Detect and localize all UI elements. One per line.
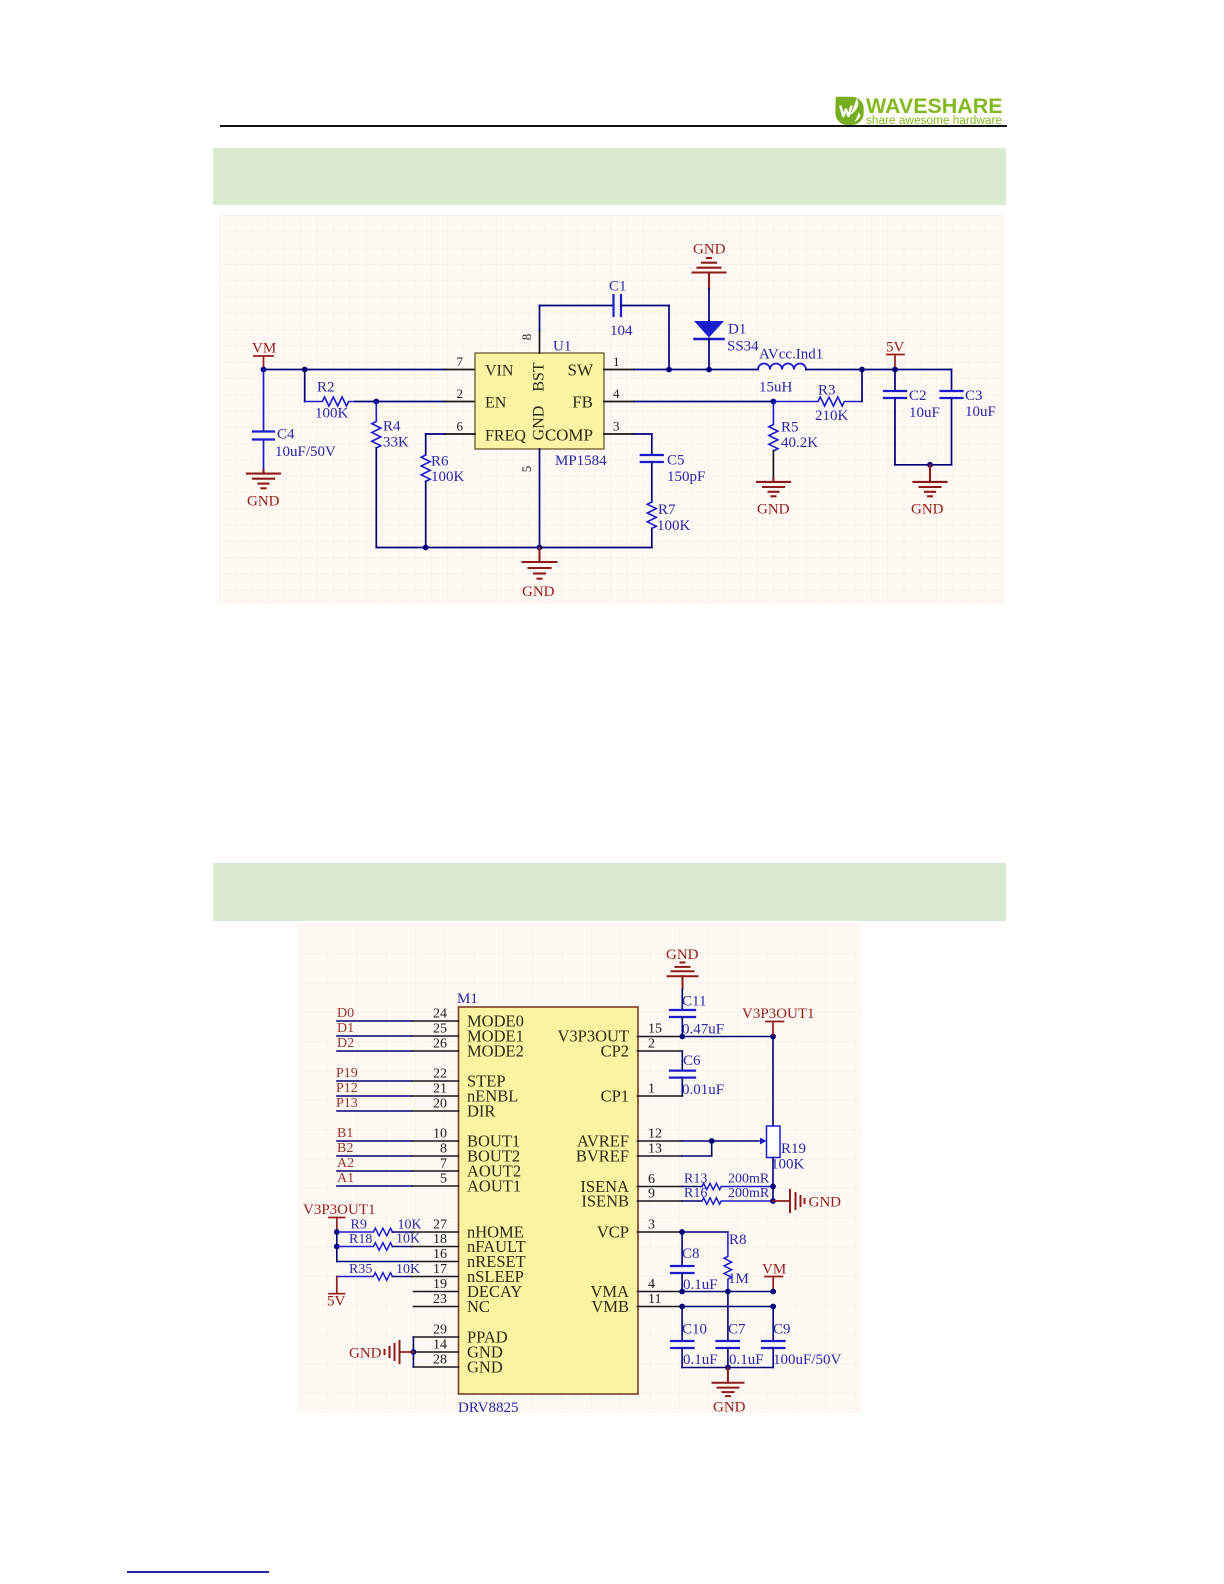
svg-text:D0: D0 xyxy=(337,1006,354,1021)
wire P19 to STEP xyxy=(337,1080,459,1082)
wire R2 to EN junction xyxy=(355,401,376,403)
svg-text:100K: 100K xyxy=(315,406,349,422)
wire ground bus (PPAD/14/28) xyxy=(412,1337,414,1367)
svg-text:17: 17 xyxy=(433,1262,447,1277)
top rule xyxy=(220,125,1007,127)
node R3 riser junction xyxy=(859,367,865,373)
wire FB (pin 4) xyxy=(604,401,773,403)
node ISENA junction xyxy=(770,1184,776,1190)
svg-text:R35: R35 xyxy=(349,1262,372,1277)
svg-text:SS34: SS34 xyxy=(727,339,759,355)
svg-text:0.1uF: 0.1uF xyxy=(729,1352,764,1368)
power port V3P3OUT1 (right) xyxy=(766,1022,784,1037)
svg-text:24: 24 xyxy=(433,1007,447,1022)
node R2 branch junction xyxy=(302,367,308,373)
capacitor C7 xyxy=(717,1292,740,1368)
wire C2/C3 bottom rail xyxy=(895,464,952,466)
svg-text:200mR: 200mR xyxy=(728,1172,770,1187)
svg-text:GND: GND xyxy=(809,1195,842,1211)
ground symbol (R5) xyxy=(757,479,790,497)
svg-text:10uF/50V: 10uF/50V xyxy=(275,444,336,460)
svg-text:VCP: VCP xyxy=(597,1223,629,1242)
svg-text:C4: C4 xyxy=(277,427,295,443)
svg-text:C1: C1 xyxy=(609,279,627,295)
wire DECAY stub xyxy=(413,1291,458,1293)
svg-text:0.1uF: 0.1uF xyxy=(683,1277,718,1293)
svg-text:GND: GND xyxy=(713,1400,746,1416)
wire V3P3OUT1 bus down to nRESET xyxy=(336,1232,338,1262)
svg-text:GND: GND xyxy=(757,502,790,518)
svg-text:100K: 100K xyxy=(657,518,691,534)
node C1/SW junction xyxy=(666,367,672,373)
capacitor C4 xyxy=(253,370,274,471)
ground symbol (C11, inverted) xyxy=(668,963,698,990)
wire R5 to ground xyxy=(772,451,774,479)
svg-text:5V: 5V xyxy=(886,340,905,356)
svg-text:33K: 33K xyxy=(383,435,409,451)
svg-text:P19: P19 xyxy=(336,1066,358,1081)
svg-text:VM: VM xyxy=(762,1262,786,1278)
capacitor C6 xyxy=(670,1071,695,1078)
node VMB/C9 junction xyxy=(770,1304,776,1310)
svg-text:EN: EN xyxy=(485,395,507,412)
wire D0 to MODE0 xyxy=(337,1020,459,1022)
svg-text:2: 2 xyxy=(457,386,464,401)
svg-text:100uF/50V: 100uF/50V xyxy=(773,1352,842,1368)
node C2C3 ground junction xyxy=(927,462,933,468)
wire GND to C11 xyxy=(681,989,683,1010)
svg-text:C11: C11 xyxy=(682,994,706,1010)
svg-text:B2: B2 xyxy=(337,1141,353,1156)
svg-text:R13: R13 xyxy=(684,1172,707,1187)
wire BVREF (pin 13) xyxy=(638,1141,712,1156)
svg-text:100K: 100K xyxy=(771,1157,805,1173)
wire 5V rail to C3 xyxy=(951,370,953,391)
resistor R16 xyxy=(702,1198,773,1204)
svg-text:6: 6 xyxy=(457,419,464,434)
wire ISENB (pin 9) xyxy=(638,1200,703,1202)
svg-text:200mR: 200mR xyxy=(728,1186,770,1201)
green banner 2 xyxy=(213,863,1006,921)
svg-text:D1: D1 xyxy=(728,322,746,338)
svg-text:R7: R7 xyxy=(658,502,676,518)
capacitor C9 xyxy=(762,1307,785,1368)
IC M1 body xyxy=(459,1007,639,1394)
svg-text:100K: 100K xyxy=(431,469,465,485)
node VM junction xyxy=(261,367,267,373)
resistor R9 xyxy=(337,1228,393,1236)
capacitor C10 xyxy=(671,1307,694,1368)
svg-text:15uH: 15uH xyxy=(759,380,793,396)
svg-text:C8: C8 xyxy=(682,1246,700,1262)
svg-text:C6: C6 xyxy=(683,1053,701,1069)
svg-text:3: 3 xyxy=(613,419,620,434)
node R8/VMA junction xyxy=(725,1289,731,1295)
ground symbol (U1) xyxy=(523,548,557,579)
svg-text:DIR: DIR xyxy=(467,1102,495,1121)
svg-text:MODE2: MODE2 xyxy=(467,1042,524,1061)
node AVREF/BVREF junction xyxy=(709,1138,715,1144)
svg-text:20: 20 xyxy=(433,1097,447,1112)
svg-text:5V: 5V xyxy=(327,1294,346,1310)
resistor R18 xyxy=(337,1243,393,1251)
wire D2 to MODE2 xyxy=(337,1050,459,1052)
wire nRESET xyxy=(337,1261,459,1263)
svg-text:26: 26 xyxy=(433,1037,447,1052)
node R18 junction xyxy=(334,1244,340,1250)
wire caps bottom rail xyxy=(682,1367,773,1369)
wire B2 to BOUT2 xyxy=(337,1155,459,1157)
svg-text:10K: 10K xyxy=(396,1232,420,1247)
svg-text:C9: C9 xyxy=(773,1322,791,1338)
capacitor C1 xyxy=(614,295,622,316)
svg-text:40.2K: 40.2K xyxy=(781,435,818,451)
svg-text:V3P3OUT1: V3P3OUT1 xyxy=(303,1202,376,1218)
resistor R2 xyxy=(305,397,355,406)
IC U1 body xyxy=(475,353,604,449)
svg-text:AVcc.Ind1: AVcc.Ind1 xyxy=(759,347,823,363)
svg-text:4: 4 xyxy=(648,1277,655,1292)
wire EN (pin 2) xyxy=(376,401,475,403)
wire VCP (pin 3) xyxy=(638,1231,728,1233)
svg-text:R4: R4 xyxy=(383,419,401,435)
svg-text:8: 8 xyxy=(519,334,534,341)
svg-text:SW: SW xyxy=(568,361,594,380)
svg-text:22: 22 xyxy=(433,1067,447,1082)
ground symbol (C4) xyxy=(247,470,280,488)
wire C1 to SW node xyxy=(621,306,669,370)
svg-text:0.47uF: 0.47uF xyxy=(682,1022,724,1038)
wire R35 to nSLEEP xyxy=(392,1276,458,1278)
capacitor C8 xyxy=(671,1232,694,1292)
svg-text:R3: R3 xyxy=(818,383,836,399)
node VMB/C10 junction xyxy=(679,1304,685,1310)
svg-text:9: 9 xyxy=(648,1187,655,1202)
wire VMA (pin 4) xyxy=(638,1291,774,1293)
svg-text:10uF: 10uF xyxy=(965,404,996,420)
svg-text:10: 10 xyxy=(433,1127,447,1142)
svg-text:GND: GND xyxy=(911,502,944,518)
svg-text:10K: 10K xyxy=(398,1218,422,1233)
wire AVREF (pin 12) xyxy=(638,1140,760,1142)
svg-text:FB: FB xyxy=(572,393,593,412)
ground symbol (top, inverted) xyxy=(693,258,726,289)
svg-text:U1: U1 xyxy=(553,339,571,355)
wire V3P3OUT (pin 15) xyxy=(638,1036,774,1038)
svg-text:2: 2 xyxy=(648,1037,655,1052)
svg-text:14: 14 xyxy=(433,1338,447,1353)
capacitor C2 xyxy=(884,370,906,465)
svg-text:CP2: CP2 xyxy=(601,1042,629,1061)
node bottom rail ground junction xyxy=(725,1365,731,1371)
power port VM xyxy=(254,356,273,370)
node VCP/C8 junction xyxy=(679,1229,685,1235)
svg-text:A1: A1 xyxy=(337,1171,354,1186)
capacitor C5 xyxy=(641,455,663,462)
svg-text:8: 8 xyxy=(440,1142,447,1157)
wire A2 to AOUT2 xyxy=(337,1170,459,1172)
svg-text:5: 5 xyxy=(440,1172,447,1187)
power port 5V (left) xyxy=(329,1277,345,1294)
resistor R7 xyxy=(647,502,656,528)
green banner 1 xyxy=(213,148,1006,205)
resistor R13 xyxy=(702,1183,773,1189)
svg-text:25: 25 xyxy=(433,1022,447,1037)
wire VMB (pin 11) xyxy=(638,1306,774,1308)
wire NC stub xyxy=(413,1306,458,1308)
svg-text:R9: R9 xyxy=(351,1218,367,1233)
node V3P3OUT1 riser junction xyxy=(770,1034,776,1040)
node ground bus junction xyxy=(411,1349,417,1355)
wire SW (pin 1) xyxy=(604,369,758,371)
svg-text:M1: M1 xyxy=(457,991,478,1007)
ground symbol (C2C3) xyxy=(914,465,947,497)
svg-text:C10: C10 xyxy=(682,1322,707,1338)
svg-text:10uF: 10uF xyxy=(909,405,940,421)
node ISENB junction xyxy=(770,1198,776,1204)
ground symbol (bottom) xyxy=(713,1368,744,1397)
wire R19 to ISEN node xyxy=(772,1158,774,1202)
wire GND to D1 xyxy=(708,289,710,321)
svg-text:27: 27 xyxy=(433,1218,447,1233)
wire VM to VIN (pin 7) xyxy=(264,369,476,371)
svg-text:C3: C3 xyxy=(965,388,983,404)
svg-text:R6: R6 xyxy=(431,454,449,470)
leaf blade glyph xyxy=(850,99,858,116)
wiper arrow into R19 xyxy=(760,1138,767,1145)
bottom-left footnote line xyxy=(127,1571,269,1573)
svg-text:AOUT1: AOUT1 xyxy=(467,1177,521,1196)
wire COMP (pin 3) xyxy=(604,434,652,455)
potentiometer R19 body xyxy=(767,1126,781,1158)
svg-text:NC: NC xyxy=(467,1297,490,1316)
svg-text:1: 1 xyxy=(613,354,620,369)
node C8/VMA junction xyxy=(679,1289,685,1295)
power port 5V xyxy=(887,355,904,370)
svg-text:4: 4 xyxy=(613,386,620,401)
node pin5/bottom rail xyxy=(537,545,543,551)
wire FREQ (pin 6) xyxy=(426,434,475,455)
resistor R5 xyxy=(769,402,778,451)
wire GND pin 28 xyxy=(413,1366,458,1368)
svg-text:29: 29 xyxy=(433,1323,447,1338)
node VM/VMA junction xyxy=(770,1289,776,1295)
wire R2 branch riser xyxy=(304,370,306,402)
wire inductor to 5V rail xyxy=(806,369,952,371)
svg-text:C7: C7 xyxy=(728,1322,746,1338)
SCH1 xyxy=(303,947,842,1416)
leaf W glyph xyxy=(841,107,852,117)
resistor R4 xyxy=(372,402,381,448)
svg-text:0.01uF: 0.01uF xyxy=(682,1082,724,1098)
power port VM xyxy=(765,1277,783,1292)
svg-text:7: 7 xyxy=(457,354,464,369)
svg-text:6: 6 xyxy=(648,1172,655,1187)
svg-text:1: 1 xyxy=(648,1082,655,1097)
svg-text:R18: R18 xyxy=(349,1232,372,1247)
capacitor C11 xyxy=(670,1010,695,1037)
node C11 junction xyxy=(679,1034,685,1040)
svg-text:ISENB: ISENB xyxy=(581,1192,629,1211)
svg-text:BST: BST xyxy=(531,362,548,392)
svg-text:P13: P13 xyxy=(336,1096,358,1111)
svg-text:V3P3OUT1: V3P3OUT1 xyxy=(742,1006,815,1022)
svg-text:15: 15 xyxy=(648,1022,662,1037)
svg-text:GND: GND xyxy=(247,494,280,510)
svg-text:23: 23 xyxy=(433,1292,447,1307)
svg-text:19: 19 xyxy=(433,1277,447,1292)
svg-text:0.1uF: 0.1uF xyxy=(683,1352,718,1368)
svg-text:R16: R16 xyxy=(684,1186,707,1201)
svg-text:A2: A2 xyxy=(337,1156,354,1171)
wire B1 to BOUT1 xyxy=(337,1140,459,1142)
wire R3 riser to SW rail xyxy=(861,370,863,402)
svg-text:28: 28 xyxy=(433,1353,447,1368)
svg-text:11: 11 xyxy=(648,1292,661,1307)
wire GND pin 14 xyxy=(413,1351,458,1353)
svg-text:VMB: VMB xyxy=(591,1297,629,1316)
wire R7 to bottom rail xyxy=(651,529,653,548)
power port V3P3OUT1 (left) xyxy=(329,1218,345,1233)
svg-text:R19: R19 xyxy=(781,1141,806,1157)
svg-text:210K: 210K xyxy=(815,408,849,424)
svg-text:1M: 1M xyxy=(728,1271,749,1287)
node R9 junction xyxy=(334,1229,340,1235)
svg-text:D2: D2 xyxy=(337,1036,354,1051)
svg-text:FREQ: FREQ xyxy=(485,428,526,445)
node R6/bottom rail xyxy=(423,545,429,551)
resistor R8 xyxy=(724,1232,732,1292)
wire R6 to bottom rail xyxy=(425,482,427,548)
wire GND pin 5 xyxy=(539,449,541,548)
svg-text:R2: R2 xyxy=(317,380,335,396)
capacitor C3 xyxy=(941,391,963,465)
svg-text:13: 13 xyxy=(648,1142,662,1157)
svg-text:COMP: COMP xyxy=(545,426,593,445)
svg-text:7: 7 xyxy=(440,1157,447,1172)
svg-text:VM: VM xyxy=(252,341,276,357)
svg-text:B1: B1 xyxy=(337,1126,353,1141)
svg-text:GND: GND xyxy=(349,1346,382,1362)
svg-text:16: 16 xyxy=(433,1247,447,1262)
svg-text:GND: GND xyxy=(531,406,548,441)
svg-text:GND: GND xyxy=(522,584,555,600)
svg-text:R5: R5 xyxy=(781,420,799,436)
wire P12 to nENBL xyxy=(337,1095,459,1097)
svg-text:VIN: VIN xyxy=(485,363,514,380)
ground symbol (right, sideways) xyxy=(790,1190,805,1212)
wire R4 down to bottom rail xyxy=(375,448,377,548)
wire A1 to AOUT1 xyxy=(337,1185,459,1187)
svg-text:MP1584: MP1584 xyxy=(555,453,607,469)
svg-text:GND: GND xyxy=(666,947,699,963)
svg-text:12: 12 xyxy=(648,1127,662,1142)
wire PPAD xyxy=(413,1336,458,1338)
node D1/SW junction xyxy=(706,367,712,373)
svg-text:C2: C2 xyxy=(909,388,927,404)
svg-text:18: 18 xyxy=(433,1232,447,1247)
svg-text:P12: P12 xyxy=(336,1081,358,1096)
svg-text:10K: 10K xyxy=(396,1262,420,1277)
wire P13 to DIR xyxy=(337,1110,459,1112)
waveshare leaf icon xyxy=(835,97,863,125)
wire ISENB to ground (sideways) xyxy=(773,1200,789,1202)
schematic area 2 xyxy=(298,924,861,1413)
wire CP2 (pin 2) xyxy=(638,1051,683,1070)
diode D1 xyxy=(694,321,724,370)
node EN/R4 junction xyxy=(373,399,379,405)
node FB/R5/R3 junction xyxy=(771,399,777,405)
ground symbol (left, sideways) xyxy=(385,1341,414,1363)
svg-text:DRV8825: DRV8825 xyxy=(458,1400,518,1416)
svg-text:C5: C5 xyxy=(667,453,685,469)
svg-text:5: 5 xyxy=(519,466,534,473)
inductor Ind1 xyxy=(758,364,806,370)
wire V3P3OUT1 riser down through R19 xyxy=(772,1037,774,1127)
svg-text:GND: GND xyxy=(693,242,726,258)
resistor R35 xyxy=(337,1273,393,1281)
svg-text:150pF: 150pF xyxy=(667,469,705,485)
svg-text:CP1: CP1 xyxy=(601,1087,629,1106)
svg-text:21: 21 xyxy=(433,1082,447,1097)
resistor R3 xyxy=(773,397,862,406)
svg-text:104: 104 xyxy=(610,323,633,339)
svg-text:R8: R8 xyxy=(729,1232,747,1248)
wire D1 to MODE1 xyxy=(337,1035,459,1037)
resistor R6 xyxy=(421,455,430,481)
wire bottom rail xyxy=(376,547,652,549)
svg-text:D1: D1 xyxy=(337,1021,354,1036)
wire C5 to R7 xyxy=(651,463,653,503)
schematic area 1 xyxy=(219,215,1005,604)
wire R18 to nFAULT xyxy=(392,1246,458,1248)
wire ISENA (pin 6) xyxy=(638,1186,703,1188)
svg-text:3: 3 xyxy=(648,1218,655,1233)
wire R9 to nHOME xyxy=(392,1231,458,1233)
wire BST riser (pin 8) xyxy=(540,306,614,354)
svg-text:GND: GND xyxy=(467,1358,503,1377)
node 5V junction xyxy=(892,367,898,373)
wire CP1 (pin 1) xyxy=(638,1078,683,1096)
svg-text:BVREF: BVREF xyxy=(576,1147,629,1166)
